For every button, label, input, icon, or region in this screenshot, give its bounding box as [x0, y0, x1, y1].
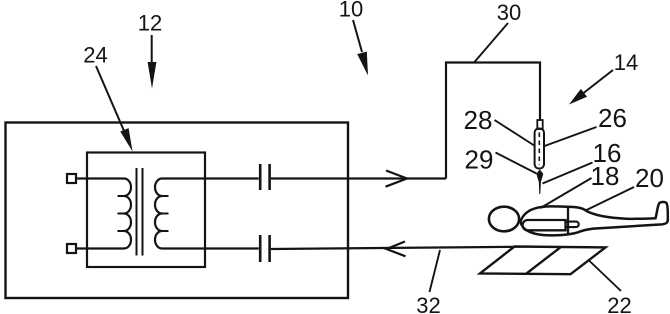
svg-text:10: 10	[339, 0, 363, 22]
svg-text:12: 12	[138, 11, 162, 36]
leader 26	[545, 127, 597, 146]
svg-text:30: 30	[497, 0, 521, 25]
patient torso and legs outline	[521, 202, 668, 235]
svg-text:18: 18	[591, 161, 620, 191]
transformer box 24	[87, 153, 205, 268]
terminal lower	[67, 244, 76, 253]
electrode 26 body	[535, 129, 544, 169]
wire terminal-lower to primary	[76, 247, 124, 249]
electrode inner dashed line 29	[538, 133, 540, 166]
capacitor C2 (bottom) plates	[260, 235, 269, 262]
leader 28	[495, 120, 536, 146]
wire 30 bracket to electrode	[446, 63, 540, 179]
leader 22	[589, 260, 622, 291]
wire secondary-top to capacitor C1	[162, 177, 259, 179]
leader 18	[541, 178, 592, 208]
transformer core	[137, 168, 143, 256]
transformer T1 secondary winding	[155, 179, 162, 249]
patient head	[489, 207, 519, 232]
leader 32	[430, 250, 441, 292]
electrode 28 collar	[537, 120, 542, 129]
electrode needle tip 16	[536, 170, 543, 195]
svg-text:14: 14	[614, 50, 638, 75]
leader 30	[475, 23, 509, 62]
wire C1 to bracket corner	[271, 177, 446, 179]
capacitor C1 (top) plates	[260, 164, 269, 190]
svg-text:24: 24	[83, 43, 107, 68]
leader 16	[543, 163, 593, 184]
leader 20	[586, 187, 635, 211]
arrow for 10	[353, 20, 362, 52]
primary winding ticks	[118, 196, 125, 231]
arrow for 14	[581, 70, 613, 95]
svg-text:20: 20	[635, 163, 664, 193]
terminal upper	[67, 174, 76, 183]
secondary winding ticks	[162, 196, 169, 231]
patient sheet edge line 20	[567, 207, 569, 236]
svg-text:22: 22	[607, 293, 631, 314]
ground plate 22	[480, 247, 606, 275]
wire secondary-bottom to capacitor C2	[162, 247, 259, 249]
svg-text:28: 28	[464, 105, 493, 135]
arrow on top wire (current direction)	[386, 171, 408, 187]
wire C2 to ground plate 22	[271, 247, 515, 249]
patient arm 18	[523, 220, 566, 230]
transformer T1 primary winding	[124, 179, 131, 249]
arrow for 12	[151, 35, 153, 64]
svg-text:29: 29	[465, 145, 494, 175]
svg-text:32: 32	[416, 293, 440, 314]
enclosure 12 (generator box)	[6, 123, 349, 299]
arrow on bottom wire (return, pointing left)	[387, 242, 406, 257]
svg-text:26: 26	[598, 103, 627, 133]
leader 29	[496, 153, 537, 174]
arrow for 24	[96, 66, 126, 136]
patient hand	[566, 222, 579, 228]
ground plate divider	[526, 247, 561, 274]
wire terminal-upper to primary	[76, 177, 124, 179]
